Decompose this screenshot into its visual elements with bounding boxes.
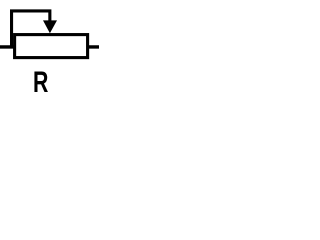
svg-text:R: R	[33, 64, 49, 99]
